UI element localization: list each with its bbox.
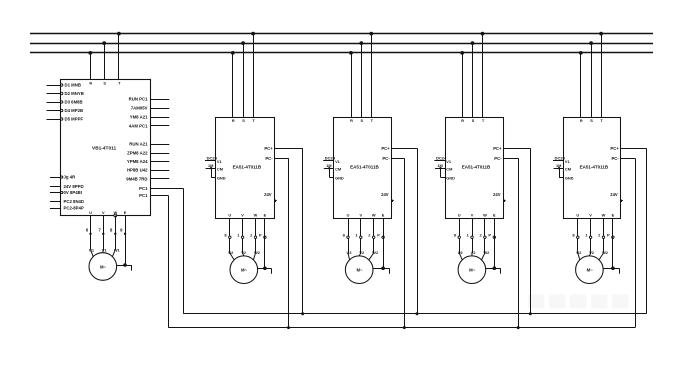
svg-text:GND: GND: [565, 175, 574, 180]
svg-text:PC-: PC-: [494, 156, 502, 161]
svg-text:RUN A21: RUN A21: [129, 142, 148, 147]
svg-text:GND: GND: [446, 175, 455, 180]
svg-text:V1: V1: [565, 159, 571, 164]
svg-text:V1: V1: [335, 159, 341, 164]
svg-text:9M4B 7RD: 9M4B 7RD: [126, 176, 147, 181]
svg-text:24V: 24V: [264, 192, 272, 197]
svg-text:M~: M~: [587, 268, 594, 273]
svg-text:E: E: [612, 213, 615, 218]
svg-text:W2: W2: [372, 250, 378, 255]
svg-text:U2: U2: [576, 250, 581, 255]
svg-text:W: W: [602, 213, 606, 218]
svg-text:U2: U2: [228, 250, 233, 255]
svg-text:R: R: [461, 118, 464, 123]
svg-text:D3 6M8B: D3 6M8B: [65, 100, 83, 105]
svg-text:GND: GND: [335, 175, 344, 180]
svg-text:M~: M~: [356, 268, 363, 273]
svg-text:PC2 8N4D: PC2 8N4D: [64, 199, 85, 204]
svg-text:U: U: [89, 210, 92, 215]
svg-text:W: W: [254, 213, 258, 218]
svg-text:24V: 24V: [493, 192, 501, 197]
svg-text:E: E: [124, 210, 127, 215]
svg-text:EA51-4T011B: EA51-4T011B: [233, 165, 262, 170]
svg-text:E: E: [382, 213, 385, 218]
svg-text:V2: V2: [359, 250, 364, 255]
svg-text:V: V: [102, 210, 105, 215]
svg-text:R: R: [580, 118, 583, 123]
svg-text:V1: V1: [217, 159, 223, 164]
svg-text:U: U: [576, 213, 579, 218]
svg-text:DC24: DC24: [207, 156, 218, 161]
svg-text:D5 MPPF: D5 MPPF: [65, 117, 84, 122]
svg-text:YPM8 A24: YPM8 A24: [127, 159, 148, 164]
svg-text:V2: V2: [471, 250, 476, 255]
svg-text:PC+: PC+: [264, 146, 273, 151]
svg-text:PC+: PC+: [610, 146, 619, 151]
svg-text:M~: M~: [241, 268, 248, 273]
svg-text:PC1: PC1: [139, 193, 148, 198]
svg-text:U2: U2: [347, 250, 352, 255]
svg-text:S: S: [590, 118, 593, 123]
svg-text:V2: V2: [589, 250, 594, 255]
svg-text:V: V: [241, 213, 244, 218]
svg-text:D1 MNB: D1 MNB: [65, 83, 81, 88]
svg-text:CM: CM: [335, 166, 341, 171]
svg-text:4AM PC1: 4AM PC1: [129, 124, 148, 129]
svg-text:VB1-4T011: VB1-4T011: [92, 146, 117, 152]
svg-text:U2: U2: [458, 250, 463, 255]
svg-text:PC+: PC+: [381, 146, 390, 151]
svg-text:V1: V1: [446, 159, 452, 164]
svg-text:EA51-4T011B: EA51-4T011B: [462, 165, 491, 170]
svg-text:24V: 24V: [610, 192, 618, 197]
svg-text:W2: W2: [254, 250, 260, 255]
svg-text:W2: W2: [602, 250, 608, 255]
svg-text:U: U: [458, 213, 461, 218]
svg-text:DC24: DC24: [555, 156, 566, 161]
svg-text:V1: V1: [102, 248, 108, 253]
svg-text:S: S: [103, 81, 106, 86]
svg-text:E: E: [493, 213, 496, 218]
svg-text:GND: GND: [217, 175, 226, 180]
svg-text:CM: CM: [446, 166, 452, 171]
svg-text:V2: V2: [241, 250, 246, 255]
svg-text:W: W: [372, 213, 376, 218]
svg-text:V: V: [589, 213, 592, 218]
svg-text:V: V: [360, 213, 363, 218]
svg-text:Jg 4R: Jg 4R: [64, 175, 77, 180]
svg-text:DC24: DC24: [436, 156, 447, 161]
svg-text:U: U: [347, 213, 350, 218]
svg-text:HP8B U42: HP8B U42: [127, 168, 148, 173]
svg-text:P: P: [259, 232, 262, 237]
svg-text:U1: U1: [89, 248, 95, 253]
svg-text:R: R: [232, 118, 235, 123]
svg-text:R: R: [89, 81, 92, 86]
svg-text:W1: W1: [114, 248, 121, 253]
svg-text:S: S: [242, 118, 245, 123]
svg-text:V: V: [471, 213, 474, 218]
svg-text:YM8 A21: YM8 A21: [130, 115, 148, 120]
svg-text:P: P: [377, 232, 380, 237]
svg-text:7AM05V: 7AM05V: [131, 106, 148, 111]
svg-text:CM: CM: [217, 166, 223, 171]
svg-text:S: S: [361, 118, 364, 123]
svg-text:D2 MNYB: D2 MNYB: [65, 91, 84, 96]
svg-text:EA51-4T011B: EA51-4T011B: [350, 165, 379, 170]
svg-text:M~: M~: [100, 264, 107, 269]
svg-text:0V 8P4BI: 0V 8P4BI: [64, 190, 82, 195]
svg-text:PC+: PC+: [493, 146, 502, 151]
svg-text:DC24: DC24: [325, 156, 336, 161]
svg-text:M~: M~: [469, 268, 476, 273]
svg-text:W: W: [483, 213, 487, 218]
svg-text:PC-: PC-: [265, 156, 273, 161]
svg-text:24V: 24V: [381, 192, 389, 197]
svg-text:P: P: [607, 232, 610, 237]
svg-text:ZPM8 A22: ZPM8 A22: [127, 151, 148, 156]
svg-text:D4 MP2B: D4 MP2B: [65, 108, 84, 113]
svg-text:W2: W2: [483, 250, 489, 255]
svg-text:EA51-4T011B: EA51-4T011B: [580, 165, 609, 170]
svg-text:E: E: [264, 213, 267, 218]
svg-text:PC-: PC-: [382, 156, 390, 161]
svg-text:RUN PC1: RUN PC1: [129, 97, 148, 102]
svg-text:PC1: PC1: [139, 186, 148, 191]
svg-text:24V 8PPD: 24V 8PPD: [64, 184, 84, 189]
svg-text:R: R: [350, 118, 353, 123]
svg-text:S: S: [472, 118, 475, 123]
svg-text:P: P: [488, 232, 491, 237]
svg-text:CM: CM: [565, 166, 571, 171]
svg-text:PC-: PC-: [611, 156, 619, 161]
svg-text:PC2-8P4P: PC2-8P4P: [64, 206, 84, 211]
svg-text:U: U: [228, 213, 231, 218]
